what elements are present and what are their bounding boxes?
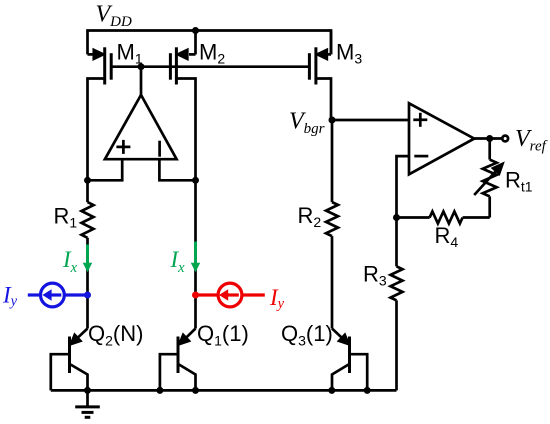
resistor R3: [391, 266, 403, 300]
wire top rail VDD: [88, 31, 332, 55]
wire middle branch M2 to Q1: [194, 180, 197, 328]
node rail Q1 collector: [192, 387, 199, 394]
node U2 output: [486, 135, 493, 142]
wire gate to op-amp output: [140, 67, 143, 95]
transistor Q2: [51, 329, 88, 391]
transistor M2: [170, 31, 195, 181]
wire U2 - input: [397, 156, 410, 217]
wire U1 + input: [88, 159, 123, 180]
wire ground rail: [51, 389, 397, 392]
op-amp U1: [105, 95, 177, 159]
svg-text:Q1(1): Q1(1): [197, 321, 249, 349]
transistor Q3: [332, 329, 367, 391]
node rail Q2 collector: [84, 387, 91, 394]
transistor Q1: [160, 329, 196, 391]
svg-text:Q2(N): Q2(N): [88, 321, 143, 349]
wire V_bgr node to opamp2: [332, 119, 409, 122]
wire gate line: [111, 65, 309, 68]
node dots: [84, 27, 493, 394]
wire left branch R1 to Q2: [86, 238, 89, 329]
node B middle: [192, 177, 199, 184]
transistor M1: [88, 47, 112, 180]
wire junction to R3: [395, 218, 398, 267]
node gate line junction: [138, 63, 145, 70]
wire U1 - input: [159, 159, 195, 180]
wire R3 to ground rail: [395, 300, 398, 390]
op-amp U2: [409, 103, 474, 174]
wire U2 output to Vref terminal: [474, 137, 502, 140]
resistor R2: [326, 202, 338, 236]
Rt1 trimmer arrow: [474, 171, 496, 195]
ground: [75, 390, 100, 417]
node M2 source on rail: [192, 27, 199, 34]
wire R4 row: [397, 216, 430, 219]
transistor M3: [309, 31, 331, 121]
resistor R1: [82, 202, 94, 238]
wire output down to Rt1: [488, 139, 491, 160]
node V_bgr: [329, 117, 336, 124]
wire M3 drain to R2: [331, 120, 334, 202]
node A left: [84, 177, 91, 184]
current arrow Ix left (green): [83, 245, 92, 273]
current source Iy right (red): [192, 283, 265, 307]
current source Iy left (blue): [28, 283, 91, 307]
terminal Vref open circle: [502, 136, 508, 142]
current arrow Ix right (green): [191, 242, 200, 273]
resistor Rt1: [483, 160, 497, 197]
wire Rt1 to R4 row: [488, 196, 491, 217]
node rail Q3 base: [364, 387, 371, 394]
node R3/R4 junction: [393, 214, 400, 221]
wire R2 to Q3: [331, 236, 334, 328]
node rail Q3 collector: [328, 387, 335, 394]
wire left branch to R1: [86, 180, 89, 202]
node rail Q1 base: [156, 387, 163, 394]
resistor R4: [430, 212, 463, 224]
svg-text:Q3(1): Q3(1): [281, 321, 333, 349]
